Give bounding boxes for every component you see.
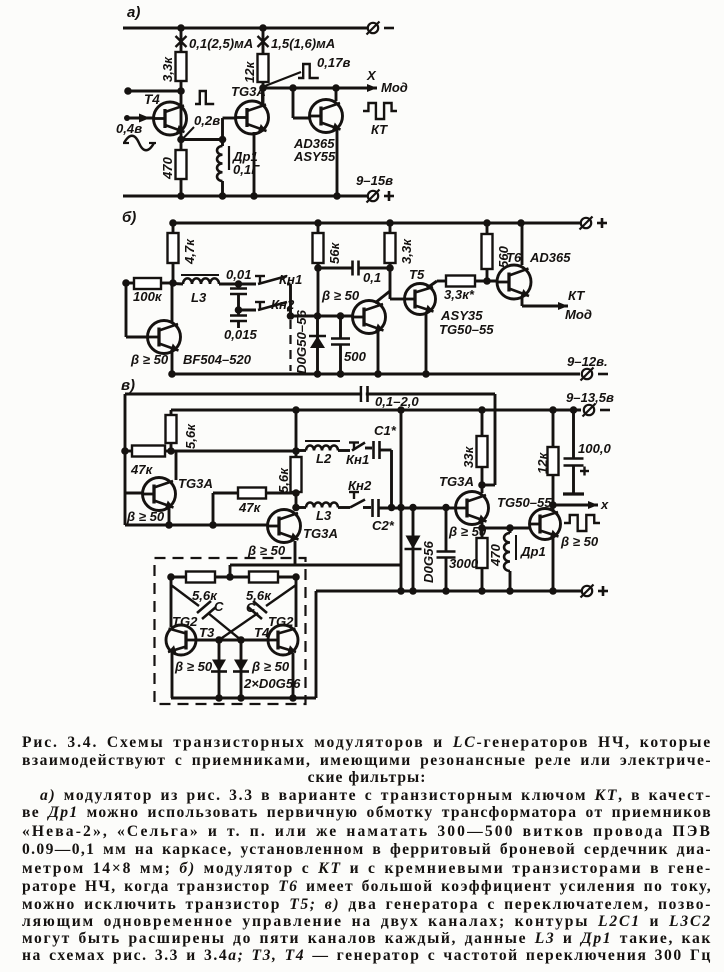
svg-text:2×D0G56: 2×D0G56 [243,676,301,691]
svg-text:100,0: 100,0 [578,441,611,456]
svg-text:0,4в: 0,4в [116,121,142,136]
svg-text:C: C [246,600,256,615]
svg-text:4,7к: 4,7к [182,238,197,265]
svg-text:0,1–2,0: 0,1–2,0 [375,394,419,409]
svg-text:β ≥ 50: β ≥ 50 [130,352,169,367]
svg-text:D0G56: D0G56 [421,541,436,583]
svg-text:Кн1: Кн1 [346,452,369,467]
svg-text:100к: 100к [133,289,163,304]
svg-text:Др1: Др1 [520,544,546,559]
svg-text:12к: 12к [535,451,550,474]
svg-text:5,6к: 5,6к [276,467,291,493]
svg-text:КТ: КТ [371,122,388,137]
svg-text:Т6: Т6 [506,250,522,265]
svg-text:0,1(2,5)мА: 0,1(2,5)мА [189,36,253,51]
svg-text:470: 470 [160,156,175,180]
svg-text:0,015: 0,015 [224,327,257,342]
svg-text:в): в) [121,377,135,394]
svg-text:Кн2: Кн2 [348,478,372,493]
svg-text:Мод: Мод [565,307,592,322]
svg-text:0,01: 0,01 [226,267,251,282]
svg-text:3000: 3000 [449,556,479,571]
svg-text:0,1: 0,1 [363,270,381,285]
svg-text:L3: L3 [316,508,332,523]
svg-text:0,1Г: 0,1Г [233,162,260,177]
svg-text:x: x [600,497,609,512]
svg-text:3,3к: 3,3к [160,56,175,82]
svg-text:Т5: Т5 [409,267,425,282]
svg-text:а): а) [127,4,140,21]
svg-text:TG3A: TG3A [439,474,474,489]
svg-text:β ≥ 50: β ≥ 50 [174,659,213,674]
svg-text:L2: L2 [316,451,332,466]
svg-text:12к: 12к [242,60,257,83]
svg-text:9–12в.: 9–12в. [567,354,608,369]
svg-text:9–15в: 9–15в [356,173,393,188]
svg-text:ASY35: ASY35 [440,308,483,323]
svg-text:L3: L3 [191,290,207,305]
svg-text:Мод: Мод [381,80,408,95]
svg-text:X: X [366,68,377,83]
svg-text:C1*: C1* [374,423,397,438]
svg-text:5,6к: 5,6к [183,423,198,449]
svg-text:AD365: AD365 [529,250,571,265]
svg-text:33к: 33к [461,445,476,468]
svg-text:Т4: Т4 [144,92,160,107]
svg-text:D0G50–56: D0G50–56 [294,310,309,374]
svg-text:β ≥ 50: β ≥ 50 [247,543,286,558]
svg-text:500: 500 [344,349,367,364]
svg-text:470: 470 [488,543,503,567]
svg-text:β ≥ 50: β ≥ 50 [251,659,290,674]
svg-text:TG50–55: TG50–55 [439,322,494,337]
svg-text:47к: 47к [238,500,262,515]
svg-text:β ≥ 50: β ≥ 50 [321,288,360,303]
svg-text:9–13,5в: 9–13,5в [566,390,614,405]
svg-text:47к: 47к [130,462,154,477]
svg-text:КТ: КТ [568,288,585,303]
svg-text:б): б) [122,209,136,226]
svg-text:TG3A: TG3A [303,526,338,541]
svg-text:56к: 56к [327,241,342,264]
svg-text:BF504–520: BF504–520 [183,352,252,367]
svg-text:β ≥ 50: β ≥ 50 [560,534,599,549]
svg-text:1,5(1,6)мА: 1,5(1,6)мА [271,36,335,51]
svg-text:C: C [214,599,224,614]
svg-text:ASY55: ASY55 [293,149,336,164]
svg-text:C2*: C2* [372,518,395,533]
svg-text:3,3к: 3,3к [399,238,414,264]
svg-text:3,3к*: 3,3к* [444,287,475,302]
svg-text:0,17в: 0,17в [317,55,350,70]
svg-text:TG3A: TG3A [178,476,213,491]
svg-text:0,2в: 0,2в [194,113,220,128]
svg-text:β ≥ 50: β ≥ 50 [126,509,165,524]
svg-text:Т3: Т3 [199,625,215,640]
